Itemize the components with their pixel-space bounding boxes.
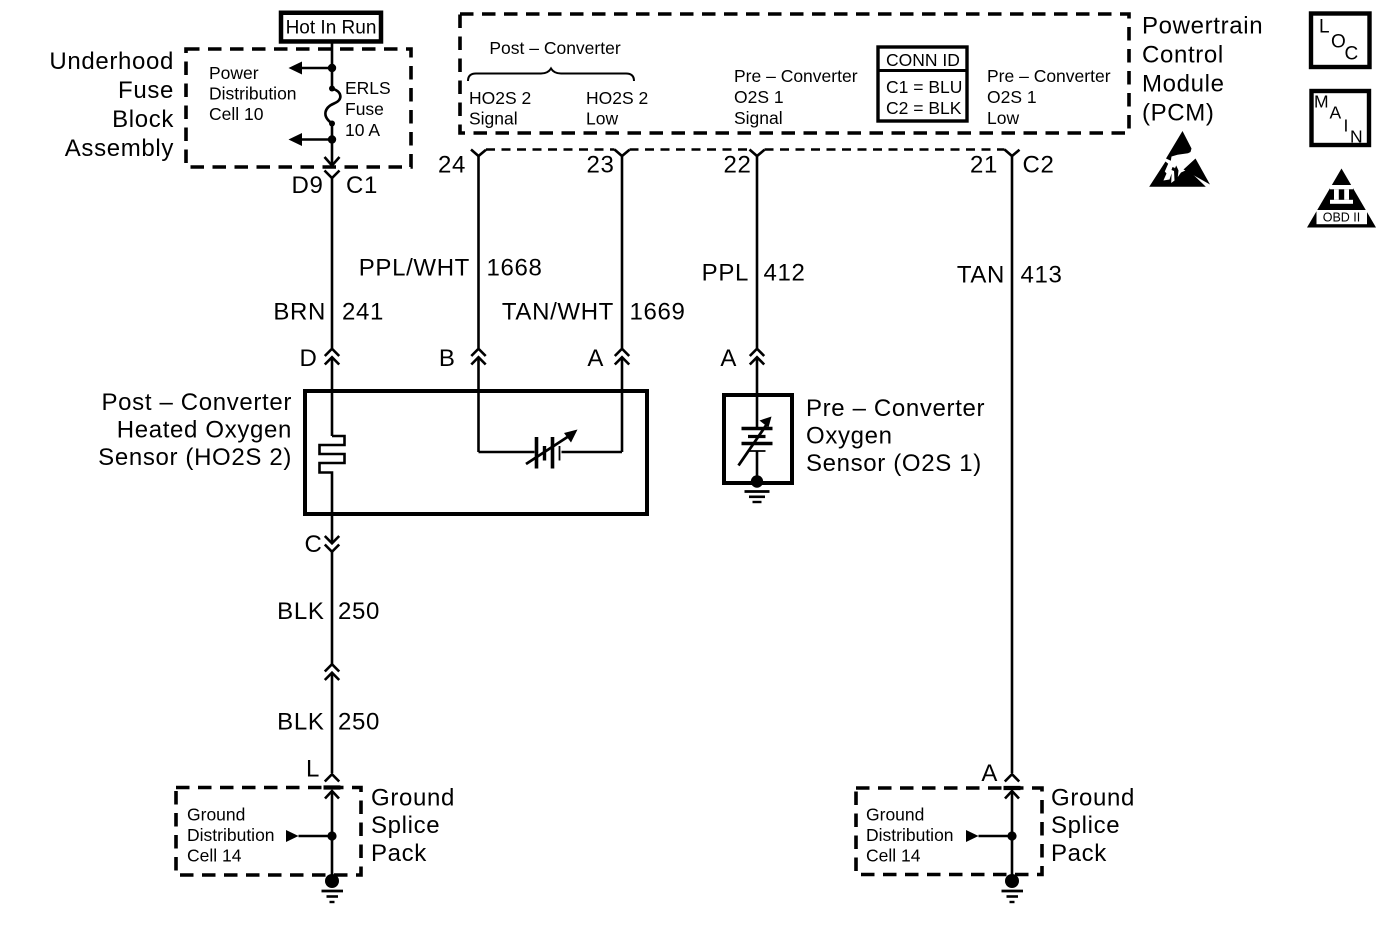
svg-text:Distribution: Distribution [866,825,954,845]
ground termination dot (left) [325,874,339,888]
svg-text:Power: Power [209,63,259,83]
svg-text:Signal: Signal [734,108,783,128]
svg-text:Pack: Pack [1051,840,1107,867]
svg-text:Oxygen: Oxygen [806,423,893,450]
connector L at left ground splice pack [306,756,339,783]
svg-text:A: A [981,760,998,787]
wire BLK 250 upper [277,552,380,664]
svg-text:Cell 10: Cell 10 [209,104,264,124]
inline connector on BLK wire [325,664,339,680]
pin 21 connector C2 [970,150,1054,179]
svg-text:Fuse: Fuse [118,77,174,104]
wire with down arrow at box exit [325,140,340,166]
wire BRN 241 [273,178,384,348]
svg-text:A: A [1330,103,1342,123]
svg-text:Splice: Splice [1051,812,1120,839]
svg-text:Ground: Ground [866,805,924,825]
text Pre-Converter O2S 1 Low [987,66,1111,128]
CONN ID table [878,47,967,121]
svg-text:Distribution: Distribution [209,84,297,104]
wire A to sensor box [621,357,624,391]
svg-text:Low: Low [586,109,618,129]
svg-text:21: 21 [970,152,998,179]
svg-text:C1 = BLU: C1 = BLU [886,77,962,97]
node junction dot (left splice) [327,831,336,840]
text Ground Distribution Cell 14 (right) [866,805,954,866]
svg-text:1668: 1668 [487,255,543,282]
svg-text:Cell 14: Cell 14 [866,846,921,866]
heater element inside HO2S2 [320,391,345,514]
svg-text:O2S 1: O2S 1 [734,87,784,107]
svg-text:Assembly: Assembly [65,135,174,162]
connector B [439,345,486,372]
svg-text:ERLS: ERLS [345,78,391,98]
PCM connector face dashed line [486,148,1005,150]
arrow tap to ground distribution (right) [966,830,1012,842]
svg-text:23: 23 [587,152,615,179]
wire BLK 250 lower [277,673,380,773]
node junction dot (bottom tap) [328,135,336,143]
internal wire A-side [562,391,623,452]
up arrow inside left splice box [325,791,339,881]
wire A to O2S1 box [756,357,759,395]
node dot at O2S1 case [751,475,763,487]
svg-text:D: D [300,345,318,372]
svg-text:Signal: Signal [469,109,518,129]
wire TAN/WHT 1669 [502,156,686,348]
node junction dot (right splice) [1007,831,1016,840]
svg-text:A: A [720,345,737,372]
power source box Hot In Run [281,13,381,42]
sensor cell (variable) inside HO2S2 [526,430,578,469]
connector A (HO2S2) [587,345,629,372]
svg-text:Hot In Run: Hot In Run [286,18,377,39]
svg-text:Post – Converter: Post – Converter [489,38,620,58]
svg-text:BRN: BRN [273,299,326,326]
svg-text:BLK: BLK [277,709,324,736]
label Ground Splice Pack (left) [371,785,455,868]
svg-text:24: 24 [438,152,466,179]
svg-text:CONN ID: CONN ID [886,50,960,70]
pin bar at left splice box entry [324,785,341,789]
svg-text:HO2S 2: HO2S 2 [469,88,531,108]
svg-text:Ground: Ground [371,785,455,812]
up arrow inside right splice box [1005,791,1019,881]
svg-text:TAN: TAN [957,262,1005,289]
svg-text:TAN/WHT: TAN/WHT [502,299,614,326]
ground symbol (right) [1002,891,1024,902]
wire PPL 412 [702,156,806,348]
svg-text:Underhood: Underhood [49,48,174,75]
text HO2S 2 Signal [469,88,531,129]
text HO2S 2 Low [586,88,648,129]
svg-text:I: I [1344,116,1349,136]
internal wire B-side [479,391,535,452]
svg-text:C2: C2 [1023,152,1055,179]
text Post-Converter with brace [468,38,634,81]
svg-text:Sensor (O2S 1): Sensor (O2S 1) [806,450,982,477]
svg-text:Pack: Pack [371,840,427,867]
svg-text:Pre – Converter: Pre – Converter [734,66,858,86]
pin 24 connector [438,150,486,179]
fuse ERLS 10 A [325,78,390,140]
svg-text:PPL: PPL [702,260,749,287]
svg-text:L: L [1319,17,1330,38]
svg-text:Ground: Ground [187,805,245,825]
svg-text:OBD II: OBD II [1323,211,1361,225]
svg-text:412: 412 [764,260,806,287]
svg-text:Fuse: Fuse [345,99,384,119]
underhood fuse block assembly dashed box [186,49,411,167]
label Powertrain Control Module (PCM) [1142,13,1263,127]
svg-text:10 A: 10 A [345,120,380,140]
svg-text:413: 413 [1021,262,1063,289]
text Power Distribution Cell 10 [209,63,297,124]
node junction dot (top tap) [328,64,336,72]
svg-text:Pre – Converter: Pre – Converter [987,66,1111,86]
ESD sensitive device symbol [1149,131,1210,187]
connector A at right ground splice pack [981,760,1019,787]
wire TAN 413 [957,156,1063,773]
wire D to sensor box [331,357,334,391]
svg-text:Powertrain: Powertrain [1142,13,1263,40]
label Post-Converter Heated Oxygen Sensor (HO2S 2) [98,389,292,471]
svg-text:250: 250 [338,709,380,736]
svg-text:250: 250 [338,598,380,625]
arrow tap to ground distribution (left) [286,830,332,842]
svg-text:C: C [1345,44,1359,65]
label Underhood Fuse Block Assembly [49,48,174,162]
PCM dashed box [460,14,1129,133]
ground symbol below O2S1 [745,492,770,503]
wire [331,68,334,88]
svg-text:Sensor (HO2S 2): Sensor (HO2S 2) [98,444,292,471]
svg-text:A: A [587,345,604,372]
svg-text:(PCM): (PCM) [1142,100,1215,127]
svg-text:HO2S 2: HO2S 2 [586,88,648,108]
text Pre-Converter O2S 1 Signal [734,66,858,128]
svg-text:Control: Control [1142,42,1224,69]
wire [331,124,334,140]
arrow to power distribution (bottom) [289,133,333,146]
MAIN reference box [1312,91,1370,147]
label Pre-Converter Oxygen Sensor (O2S 1) [806,395,985,477]
ground symbol (left) [322,891,344,902]
pin bar at right splice box entry [1004,786,1021,790]
svg-text:L: L [306,756,320,783]
wire below HO2S2 to C connector [331,514,334,544]
right ground splice pack dashed box [856,788,1042,875]
svg-text:O2S 1: O2S 1 [987,87,1037,107]
wire B to sensor box [477,357,480,391]
svg-text:BLK: BLK [277,598,324,625]
svg-text:Post – Converter: Post – Converter [102,389,292,416]
svg-text:D9: D9 [292,172,324,199]
svg-text:Cell 14: Cell 14 [187,846,242,866]
svg-text:1669: 1669 [630,299,686,326]
HO2S2 sensor box [305,391,647,514]
OBD II triangle symbol [1307,169,1376,228]
svg-text:PPL/WHT: PPL/WHT [359,255,470,282]
svg-text:Low: Low [987,108,1019,128]
text Ground Distribution Cell 14 (left) [187,805,275,866]
svg-text:C2 = BLK: C2 = BLK [886,98,962,118]
O2S1 sensor box [724,395,792,483]
svg-text:M: M [1314,92,1329,112]
svg-text:Pre – Converter: Pre – Converter [806,395,985,422]
svg-text:C1: C1 [346,172,378,199]
left ground splice pack dashed box [176,788,361,876]
connector C1 pin D9 [292,171,378,200]
svg-text:B: B [439,345,456,372]
svg-text:Block: Block [112,106,174,133]
svg-text:Splice: Splice [371,812,440,839]
pin 22 connector [724,150,765,179]
svg-text:Heated Oxygen: Heated Oxygen [117,417,292,444]
svg-text:Distribution: Distribution [187,825,275,845]
svg-text:241: 241 [342,299,384,326]
ground termination dot (right) [1005,874,1019,888]
pin 23 connector [587,150,630,179]
svg-text:N: N [1350,127,1363,147]
LOC reference box [1311,14,1370,68]
svg-text:Module: Module [1142,71,1225,98]
connector C [305,531,340,558]
wire PPL/WHT 1668 [359,156,543,348]
arrow to power distribution (top) [289,62,333,75]
svg-text:Ground: Ground [1051,785,1135,812]
label Ground Splice Pack (right) [1051,785,1135,868]
wire from Hot In Run to fuse block [331,43,334,68]
svg-text:C: C [305,531,323,558]
connector A (O2S1) [720,345,764,372]
sensor cell (variable) inside O2S1 [739,395,773,478]
connector D [300,345,340,372]
svg-text:22: 22 [724,152,752,179]
